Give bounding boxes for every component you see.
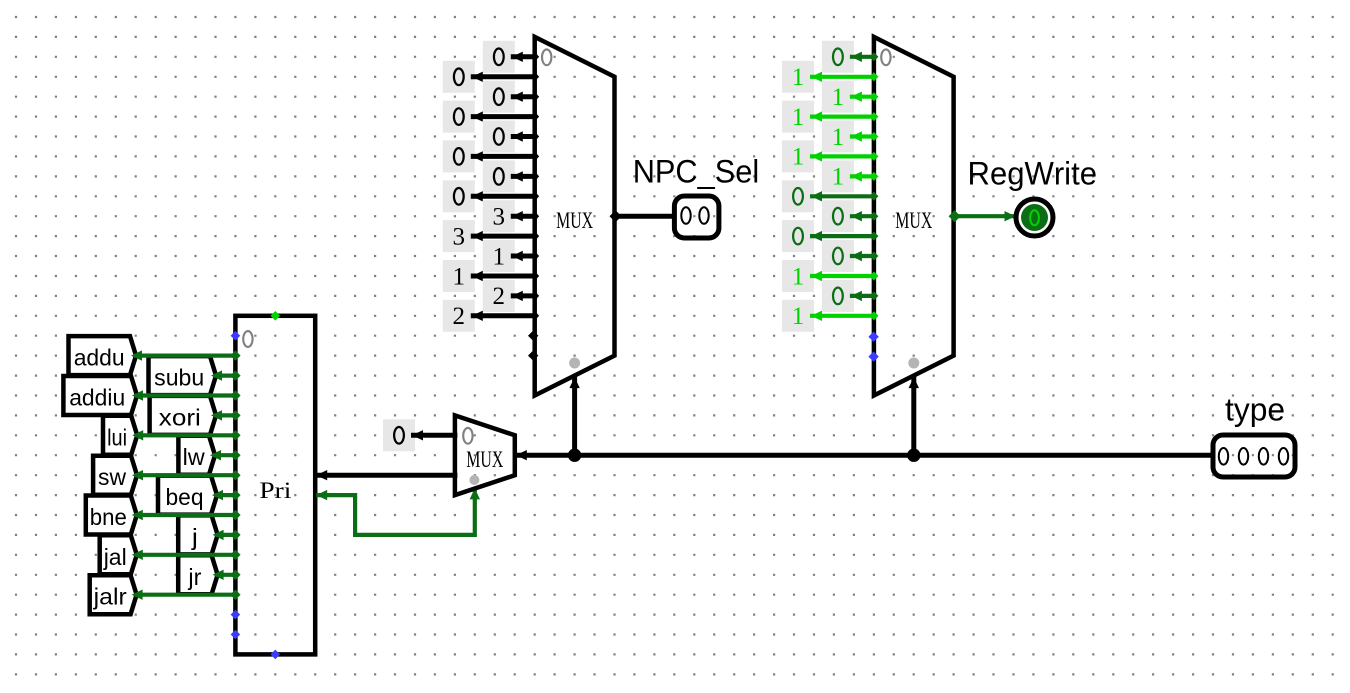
svg-text:1: 1	[832, 164, 845, 191]
svg-text:type: type	[1225, 392, 1285, 428]
svg-text:1: 1	[792, 104, 805, 131]
svg-text:Pri: Pri	[259, 478, 291, 503]
svg-text:1: 1	[832, 84, 845, 111]
svg-text:subu: subu	[154, 365, 204, 391]
svg-text:addiu: addiu	[69, 385, 125, 411]
svg-text:1: 1	[792, 303, 805, 330]
svg-text:j: j	[191, 524, 198, 550]
svg-text:MUX: MUX	[556, 208, 593, 233]
svg-text:lui: lui	[107, 424, 127, 450]
svg-text:xori: xori	[159, 404, 201, 430]
svg-text:addu: addu	[74, 345, 125, 371]
svg-text:lw: lw	[183, 444, 205, 470]
svg-text:sw: sw	[98, 464, 126, 490]
svg-text:beq: beq	[166, 484, 204, 510]
svg-text:2: 2	[493, 283, 506, 310]
svg-text:RegWrite: RegWrite	[968, 156, 1098, 192]
svg-text:1: 1	[493, 243, 506, 270]
svg-text:MUX: MUX	[466, 447, 503, 472]
svg-text:3: 3	[493, 204, 506, 231]
svg-text:bne: bne	[90, 504, 127, 530]
svg-text:2: 2	[453, 303, 466, 330]
svg-text:1: 1	[453, 263, 466, 290]
svg-text:1: 1	[792, 144, 805, 171]
svg-text:jalr: jalr	[93, 584, 127, 610]
svg-text:1: 1	[792, 64, 805, 91]
svg-text:3: 3	[453, 223, 466, 250]
svg-text:1: 1	[792, 263, 805, 290]
svg-text:1: 1	[832, 124, 845, 151]
svg-text:MUX: MUX	[895, 208, 932, 233]
svg-text:NPC_Sel: NPC_Sel	[633, 154, 760, 190]
svg-text:jal: jal	[103, 544, 127, 570]
svg-text:jr: jr	[187, 564, 201, 590]
